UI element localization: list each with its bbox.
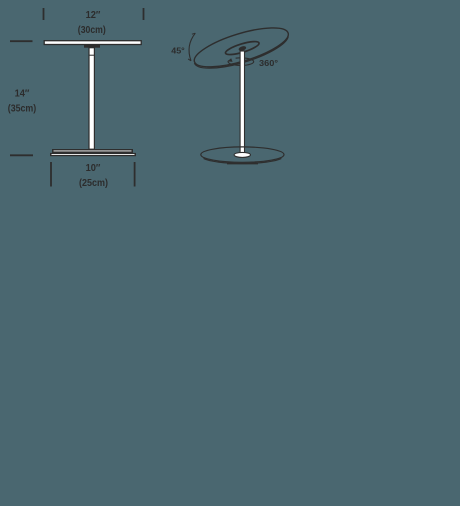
45 degree arc (189, 33, 195, 61)
45 arc arrowhead bottom (188, 59, 191, 61)
tabletop (front view) (44, 41, 141, 45)
stem seam (89, 54, 94, 56)
base bottom rim center thick segment (227, 163, 258, 165)
svg-text:12″: 12″ (86, 10, 101, 21)
45 arc arrowhead top (192, 33, 195, 34)
svg-text:10″: 10″ (86, 163, 101, 174)
base bottom rim (side view thickness) (204, 159, 282, 164)
base ellipse (side view) (201, 147, 284, 162)
dimension tick bottom-left (10in left) (50, 162, 52, 187)
hub swirl ring (224, 39, 260, 57)
joint block under tabletop (84, 45, 100, 48)
disc outer ellipse (tilted top) (190, 20, 292, 75)
base upper slab (front view) (52, 149, 133, 153)
360 arc arrowhead (filled) (227, 58, 232, 62)
svg-text:45°: 45° (171, 46, 185, 56)
disc outer rim offset (thickness, left/lower-left) (194, 35, 291, 77)
dimension tick bottom-right (10in right) (134, 162, 136, 187)
svg-text:(25cm): (25cm) (79, 178, 108, 189)
svg-text:360°: 360° (259, 58, 279, 68)
stem (side view) (240, 51, 244, 153)
dimension tick top-left (12in left) (43, 8, 45, 20)
dimension tick left-top (14in top) (10, 40, 33, 42)
base lower slab core line (52, 153, 135, 155)
svg-text:14″: 14″ (15, 89, 30, 100)
stem foot (234, 152, 250, 157)
svg-text:(35cm): (35cm) (8, 104, 37, 115)
svg-text:(30cm): (30cm) (78, 25, 106, 36)
base lower slab (front view) (50, 153, 136, 156)
hub cone center (dark) (238, 45, 247, 51)
base upper slab core line (54, 150, 132, 152)
dimension tick left-bottom (14in bottom) (10, 154, 33, 156)
stem (front view) (89, 48, 94, 150)
360 degree arc around stem (228, 58, 254, 66)
dimension tick top-right (12in right) (143, 8, 145, 20)
